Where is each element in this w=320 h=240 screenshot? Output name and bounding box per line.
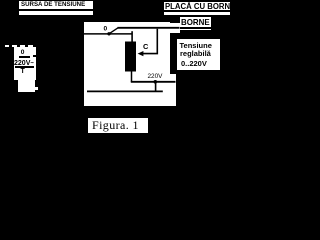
underline bar of PLACA box <box>164 10 231 13</box>
label box SURSA DE TENSIUNE <box>19 1 93 16</box>
switch node <box>107 32 110 35</box>
source box text 0 <box>21 49 25 56</box>
white strip carrying wire to BORNE box <box>169 23 180 33</box>
switch blade <box>109 28 118 34</box>
Figura. 1 caption box <box>88 118 148 133</box>
source box underline 1 tick <box>33 55 37 57</box>
circuit ink overlay <box>0 0 230 136</box>
circuit board white area <box>84 22 170 99</box>
white tick at right of source box bottom <box>34 87 38 89</box>
white torn dashes above source box <box>5 45 9 47</box>
svg-text:C: C <box>143 42 149 51</box>
Tensiune reglabila box <box>177 39 220 71</box>
wiper arrowhead <box>138 51 144 56</box>
autotransformer winding (black rectangle) <box>125 42 136 72</box>
bottom wire to right <box>131 81 176 83</box>
underline bar of SURSA box <box>19 9 93 11</box>
wiper arm <box>142 29 158 54</box>
source box text 220V~ <box>14 58 34 67</box>
wire below winding <box>131 71 133 82</box>
label box BORNE <box>180 17 211 30</box>
label box PLACA CU BORNE <box>164 2 231 15</box>
circuit board white lower/right extension <box>84 74 176 106</box>
source box underline 1 <box>19 56 30 58</box>
source box underline 2 <box>15 66 35 68</box>
wire down to winding <box>131 31 133 42</box>
junction node <box>154 80 158 84</box>
source box (0 / 220V~ / T) <box>14 47 37 80</box>
input wire (lower left) <box>84 33 133 35</box>
source box text T <box>21 68 25 75</box>
svg-text:0: 0 <box>104 25 108 32</box>
bottom rail <box>87 90 163 92</box>
drop from junction <box>155 82 157 92</box>
svg-text:220V: 220V <box>148 73 164 80</box>
top wire to BORNE <box>118 27 180 29</box>
underline bar of BORNE box <box>180 27 211 29</box>
